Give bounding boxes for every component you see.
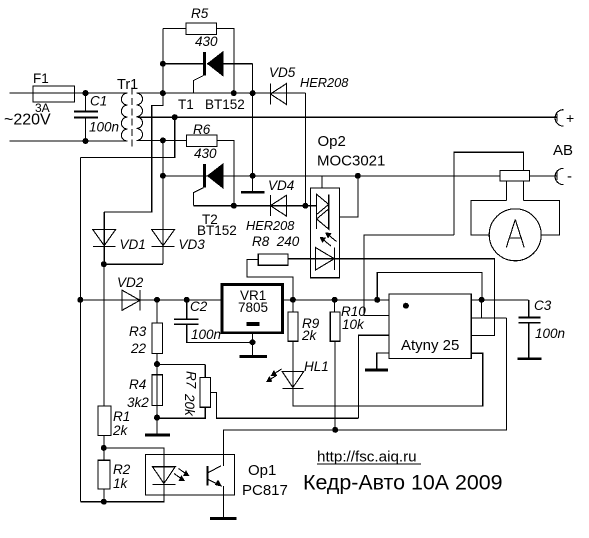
svg-text:HER208: HER208 bbox=[300, 75, 349, 90]
wire T1 gate row bbox=[163, 92, 306, 94]
optocoupler Op1 box bbox=[146, 454, 235, 495]
wire loop to pin7 bbox=[481, 300, 483, 318]
node loop left bbox=[374, 297, 380, 303]
svg-text:C1: C1 bbox=[90, 94, 107, 109]
arrows Op1 coupling bbox=[174, 469, 189, 481]
node minus rail start bbox=[160, 173, 166, 179]
diode VD4 bbox=[270, 195, 286, 216]
svg-text:10k: 10k bbox=[342, 317, 365, 332]
svg-text:VD2: VD2 bbox=[117, 275, 144, 290]
svg-text:3k2: 3k2 bbox=[127, 395, 149, 410]
transistor in Op1 bbox=[208, 466, 222, 486]
triac in Op2 bbox=[317, 194, 329, 229]
svg-text:430: 430 bbox=[194, 146, 217, 161]
resistor R10 bbox=[330, 312, 340, 341]
ammeter A circle bbox=[489, 209, 541, 261]
wire VD1 VD3 cathodes bbox=[104, 263, 163, 265]
resistor R3 bbox=[152, 323, 163, 353]
svg-text:VD3: VD3 bbox=[179, 237, 206, 252]
node R3 R4 bbox=[154, 361, 160, 367]
svg-text:http://fsc.aiq.ru: http://fsc.aiq.ru bbox=[317, 449, 417, 466]
svg-text:BT152: BT152 bbox=[197, 223, 237, 238]
terminal plus bbox=[552, 110, 563, 126]
wire R8 left bbox=[247, 260, 293, 300]
svg-text:Кедр-Авто 10А 2009: Кедр-Авто 10А 2009 bbox=[303, 471, 503, 495]
svg-text:AB: AB bbox=[553, 142, 573, 159]
wire plus tap to T2 anode bbox=[80, 117, 174, 157]
arrows Op2 coupling bbox=[321, 233, 337, 246]
regulator VR1 bbox=[222, 285, 283, 357]
wire secondary top tap bbox=[136, 92, 163, 94]
resistor R9 bbox=[288, 312, 298, 341]
ammeter body bbox=[471, 201, 560, 235]
wire R5 right bbox=[217, 29, 234, 94]
ground VR1 bbox=[239, 355, 266, 358]
svg-text:Op2: Op2 bbox=[318, 133, 346, 150]
wire R10 leads bbox=[334, 300, 336, 430]
node R10 bbox=[332, 297, 338, 303]
svg-text:2k: 2k bbox=[112, 423, 129, 438]
terminal minus bbox=[530, 168, 564, 184]
underline url bbox=[317, 463, 421, 465]
pin1 mark bbox=[403, 303, 409, 309]
svg-text:R2: R2 bbox=[113, 462, 131, 477]
wire Op1 LED cathode bbox=[80, 485, 164, 502]
wire VD5 to Op2 drop bbox=[304, 93, 306, 206]
optocoupler Op2 MOC3021 box bbox=[311, 188, 340, 278]
wire Op1 collector bbox=[223, 318, 506, 466]
svg-text:Op1: Op1 bbox=[248, 462, 276, 479]
wire Op1 LED anode bbox=[104, 448, 164, 485]
node VD4-Op2 bbox=[302, 203, 308, 209]
resistor R5 bbox=[186, 23, 217, 34]
ground at minus rail bbox=[241, 176, 265, 193]
wire R6 left bbox=[163, 139, 187, 141]
node C2 top bbox=[184, 297, 190, 303]
svg-text:2k: 2k bbox=[301, 328, 318, 343]
node VD2 left bbox=[77, 297, 83, 303]
node R5-VD5 bbox=[231, 90, 237, 96]
ground Atyny bbox=[365, 353, 389, 370]
resistor R4 bbox=[152, 375, 163, 406]
resistor R6 bbox=[187, 135, 217, 146]
svg-text:C2: C2 bbox=[190, 299, 208, 314]
wire W1 to pin2 bbox=[364, 235, 454, 316]
node loop right bbox=[479, 297, 485, 303]
wire R9 leads bbox=[292, 300, 294, 390]
node R1 R2 bbox=[101, 445, 107, 451]
wire R1 bottom bbox=[103, 436, 105, 448]
svg-text:430: 430 bbox=[195, 34, 218, 49]
arrows HL1 bbox=[267, 369, 282, 382]
wire shunt stems bbox=[506, 181, 523, 201]
wire VD2 row (+5 rail left) bbox=[80, 299, 222, 301]
ground Op1 bbox=[210, 517, 236, 520]
diode VD2 bbox=[122, 290, 140, 310]
node T1anode minus bbox=[250, 173, 256, 179]
wire minus rail bbox=[163, 175, 500, 177]
wire reset loop bbox=[377, 273, 482, 300]
wire Op2 top lead bbox=[321, 176, 323, 188]
transformer Tr1 bbox=[121, 88, 142, 147]
svg-text:1k: 1k bbox=[113, 476, 129, 491]
svg-text:+: + bbox=[566, 110, 574, 126]
node plus tap bbox=[172, 114, 178, 120]
wire left cathode bus lower bbox=[162, 140, 164, 175]
node Op2 gate minus bbox=[355, 173, 361, 179]
node T1 anode-VD5 bbox=[250, 90, 256, 96]
svg-text:R6: R6 bbox=[193, 122, 211, 137]
node sec top gate bbox=[160, 90, 166, 96]
MCU Atyny25 box bbox=[389, 294, 471, 359]
node VR1 gnd bbox=[250, 339, 256, 345]
wire secondary mid tap (+) bbox=[138, 116, 175, 118]
svg-text:-: - bbox=[567, 168, 572, 185]
wire pin7 stub bbox=[471, 317, 506, 319]
resistor R2 bbox=[98, 460, 110, 489]
wire R3R4 to R7 top bbox=[157, 364, 205, 366]
node R9 bbox=[290, 297, 296, 303]
wire R6 right bbox=[217, 140, 234, 205]
wire ammeter top loop bbox=[454, 152, 524, 235]
wire R2 leads bbox=[103, 448, 105, 502]
node R3 top bbox=[154, 297, 160, 303]
svg-text:Tr1: Tr1 bbox=[117, 77, 138, 93]
svg-text:PC817: PC817 bbox=[242, 482, 288, 499]
wire pin3 R7 bbox=[359, 335, 390, 418]
diode VD3 bbox=[152, 176, 175, 264]
ground R4 bbox=[145, 418, 170, 436]
svg-text:R8 240: R8 240 bbox=[252, 234, 300, 249]
wire AC sense drop bbox=[79, 157, 81, 501]
wire T2 gate row bbox=[194, 205, 317, 207]
wire T1 anode drop bbox=[252, 64, 254, 176]
node sec top T1 bbox=[160, 61, 166, 67]
svg-text:100n: 100n bbox=[89, 119, 119, 134]
svg-text:VD4: VD4 bbox=[268, 178, 294, 193]
node sec bottom R6 bbox=[160, 137, 166, 143]
svg-text:R4: R4 bbox=[129, 377, 146, 392]
node T2-VD4 bbox=[231, 203, 237, 209]
svg-text:MOC3021: MOC3021 bbox=[317, 153, 385, 170]
svg-text:VD1: VD1 bbox=[120, 237, 146, 252]
resistor R1 bbox=[98, 406, 111, 436]
svg-text:100n: 100n bbox=[191, 327, 221, 342]
resistor R8 bbox=[258, 254, 288, 265]
diode VD5 bbox=[270, 84, 286, 105]
wire mains bottom bbox=[10, 140, 128, 142]
wire +5 rail bbox=[283, 299, 529, 301]
node mains-C1 bottom bbox=[83, 138, 89, 144]
fuse F1 bbox=[33, 86, 75, 102]
wire Op2 gate bbox=[340, 176, 358, 217]
wire secondary bottom tap bbox=[136, 140, 163, 142]
wire R5 left bbox=[163, 28, 186, 30]
thyristor T1 bbox=[163, 52, 253, 93]
svg-text:HER208: HER208 bbox=[246, 218, 295, 233]
wire HL1 cathode bbox=[293, 353, 483, 406]
wire mains top bbox=[10, 92, 128, 94]
node mains-C1 top bbox=[83, 90, 89, 96]
capacitor C3 bbox=[518, 300, 542, 359]
wire plus rail bbox=[175, 116, 552, 118]
svg-text:~220V: ~220V bbox=[4, 112, 51, 129]
svg-text:R1: R1 bbox=[113, 409, 130, 424]
capacitor C2 bbox=[174, 300, 252, 343]
wire R3 leads bbox=[156, 300, 158, 418]
wire left bus to R1 bbox=[103, 264, 105, 406]
svg-text:HL1: HL1 bbox=[304, 359, 329, 374]
node VD1 bus bbox=[101, 261, 107, 267]
LED in Op1 bbox=[153, 467, 176, 485]
wire left cathode bus upper bbox=[104, 29, 163, 213]
LED in Op2 bbox=[316, 248, 335, 271]
svg-text:100n: 100n bbox=[535, 326, 565, 341]
node R2 bottom bbox=[101, 499, 107, 505]
svg-text:VD5: VD5 bbox=[269, 65, 296, 80]
svg-text:R7: R7 bbox=[184, 371, 199, 389]
svg-text:F1: F1 bbox=[33, 71, 49, 86]
svg-text:Atyny 25: Atyny 25 bbox=[401, 337, 459, 354]
thyristor T2 bbox=[194, 164, 224, 206]
node R4 bottom bbox=[154, 415, 160, 421]
svg-text:7805: 7805 bbox=[238, 300, 268, 315]
capacitor C1 bbox=[74, 93, 98, 141]
node R10 bottom bbox=[332, 427, 338, 433]
svg-text:T1: T1 bbox=[178, 97, 194, 112]
svg-text:R5: R5 bbox=[191, 6, 209, 21]
svg-text:20k: 20k bbox=[182, 393, 197, 417]
wire Op1 emitter bbox=[222, 486, 224, 519]
wire Op2 LED row to pin6 bbox=[288, 259, 494, 336]
svg-text:C3: C3 bbox=[534, 298, 552, 313]
svg-text:R3: R3 bbox=[129, 324, 147, 339]
trimmer R7 bbox=[157, 365, 359, 419]
shunt resistor bbox=[500, 171, 530, 182]
svg-text:BT152: BT152 bbox=[205, 97, 245, 112]
svg-text:22: 22 bbox=[130, 341, 147, 356]
diode VD1 bbox=[93, 212, 116, 264]
LED HL1 bbox=[282, 371, 304, 388]
